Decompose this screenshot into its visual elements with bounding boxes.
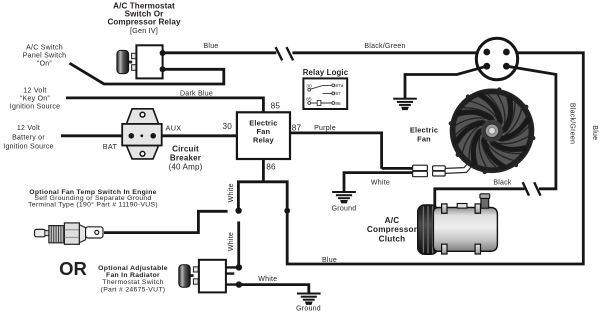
svg-text:Blue: Blue: [322, 257, 337, 264]
svg-text:12 Volt: 12 Volt: [17, 125, 40, 132]
label A/C Compressor Clutch: [367, 216, 418, 243]
engine temp switch neck: [45, 231, 50, 236]
radiator thermostat switch contact dots: [236, 264, 242, 288]
svg-text:Relay: Relay: [253, 136, 274, 145]
wire black/green from connector to compressor black wire: [506, 66, 556, 189]
svg-text:Ignition Source: Ignition Source: [10, 103, 60, 110]
4-pin round connector: [476, 38, 517, 79]
svg-text:85: 85: [271, 102, 281, 111]
circuit breaker terminal AUX: [150, 133, 156, 139]
svg-text:A/C Switch: A/C Switch: [26, 45, 63, 52]
label A/C Switch Panel Switch On: [23, 45, 66, 68]
svg-text:BAT: BAT: [103, 142, 118, 151]
svg-text:87: 87: [335, 91, 341, 97]
junction dot on blue branch: [284, 208, 290, 214]
svg-text:85: 85: [306, 97, 312, 103]
wire from breaker AUX to relay pin 30: [153, 134, 237, 137]
svg-text:Circuit: Circuit: [172, 145, 199, 154]
fan wire plug connector right half: [433, 166, 446, 176]
svg-text:Black/Green: Black/Green: [364, 43, 405, 50]
circuit breaker mounting bracket: [126, 109, 158, 159]
engine temp switch hex nut: [64, 223, 79, 244]
svg-text:AUX: AUX: [166, 124, 182, 133]
circuit breaker center rivet: [140, 134, 143, 137]
label 12 Volt Battery or Ignition Source: [3, 125, 53, 150]
svg-text:Relay Logic: Relay Logic: [303, 68, 349, 77]
wire white from engine temp switch with step: [104, 211, 228, 232]
wire from A/C panel switch to thermostat switch: [70, 63, 224, 84]
A/C thermostat switch capsule sensor: [117, 50, 132, 73]
label Electric Fan Relay: [249, 119, 277, 145]
svg-text:Ignition Source: Ignition Source: [3, 144, 53, 151]
fan lead wires: [445, 142, 489, 173]
svg-text:Panel Switch: Panel Switch: [23, 53, 66, 60]
circuit breaker body: [122, 124, 162, 146]
svg-text:Breaker: Breaker: [170, 153, 201, 162]
svg-text:87a: 87a: [335, 83, 343, 89]
wire dark blue from Key On source to relay pin 85: [66, 98, 263, 112]
svg-text:Black/Green: Black/Green: [569, 103, 576, 144]
svg-text:White: White: [228, 232, 235, 251]
A/C compressor body: [433, 204, 497, 252]
splice break in blue wire: [276, 47, 294, 60]
svg-text:“Key On”: “Key On”: [20, 95, 50, 102]
svg-text:A/C: A/C: [385, 216, 400, 225]
radiator thermostat switch stubs: [226, 267, 237, 284]
svg-text:Fan In Radiator: Fan In Radiator: [106, 272, 160, 279]
electric fan: [449, 87, 536, 174]
label A/C Thermostat Switch title: [107, 1, 181, 35]
A/C compressor clutch pulley: [418, 205, 439, 255]
ground fan white lead: [332, 191, 356, 203]
svg-text:White: White: [371, 180, 390, 187]
svg-text:30: 30: [306, 83, 312, 89]
A/C thermostat switch body: [136, 45, 162, 78]
svg-text:OR: OR: [59, 258, 87, 279]
wire white from radiator switch to ground: [239, 285, 309, 293]
label Circuit Breaker 40 Amp: [168, 145, 202, 172]
radiator thermostat switch body: [199, 260, 226, 293]
svg-text:87: 87: [292, 124, 302, 133]
svg-text:Black: Black: [493, 180, 512, 187]
ground connector blue lead: [393, 98, 417, 110]
wire from relay pin 86 splitting to switch branches: [238, 53, 583, 264]
engine temp switch sensor tip: [35, 229, 46, 236]
svg-text:Ground: Ground: [296, 305, 321, 312]
svg-text:(40 Amp): (40 Amp): [168, 163, 202, 172]
A/C thermostat switch terminals: [132, 53, 137, 70]
radiator thermostat switch capsule: [179, 265, 194, 288]
label 12 Volt Key On Ignition Source: [10, 87, 60, 110]
wire purple from relay pin 87 to fan connector: [290, 133, 413, 169]
svg-text:White: White: [258, 276, 277, 283]
svg-text:Battery or: Battery or: [12, 135, 45, 142]
svg-text:Purple: Purple: [314, 125, 336, 132]
electric fan relay box: [237, 112, 290, 159]
svg-text:86: 86: [335, 101, 341, 107]
wire white fan ground lead: [344, 173, 413, 192]
wire black to compressor clutch: [435, 189, 525, 208]
svg-text:Electric: Electric: [410, 126, 438, 135]
ground radiator switch: [297, 293, 321, 305]
A/C compressor mounting lugs: [442, 204, 481, 254]
junction dot optional switch node: [235, 207, 241, 213]
svg-text:Clutch: Clutch: [379, 234, 406, 243]
label Electric Fan: [410, 126, 438, 144]
svg-text:Terminal Type (190° Part # 111: Terminal Type (190° Part # 11190-VUS): [28, 201, 158, 209]
wire blue from connector to ground: [405, 66, 487, 98]
svg-text:[Gen IV]: [Gen IV]: [130, 26, 158, 35]
A/C thermostat switch contact dots: [160, 50, 166, 72]
wire from battery source to circuit breaker BAT: [61, 134, 131, 137]
wire white left branch down to junction: [237, 182, 240, 208]
engine temp switch threads: [49, 226, 65, 243]
circuit breaker terminal BAT: [129, 133, 135, 139]
radiator thermostat switch terminals: [193, 267, 198, 284]
svg-text:(Part # 24675-VUT): (Part # 24675-VUT): [101, 286, 166, 293]
svg-text:“On”: “On”: [37, 61, 52, 68]
svg-text:86: 86: [266, 162, 276, 171]
label Optional Fan Temp Switch note: [28, 189, 158, 209]
splice break in black wire: [523, 182, 541, 195]
svg-text:Blue: Blue: [591, 125, 598, 140]
svg-text:Optional Adjustable: Optional Adjustable: [98, 265, 168, 272]
svg-text:Ground: Ground: [332, 206, 357, 213]
engine temp switch spade terminal: [79, 225, 103, 243]
svg-text:White: White: [228, 183, 235, 202]
A/C compressor top fitting: [480, 194, 490, 208]
fan wire plug connector left half: [413, 165, 428, 177]
svg-text:Thermostat Switch: Thermostat Switch: [102, 279, 163, 286]
label Optional Adjustable Fan note: [98, 265, 168, 293]
connector pin dots: [483, 49, 509, 70]
relay logic pin labels: [306, 83, 343, 107]
relay logic box: [303, 78, 347, 109]
svg-text:Blue: Blue: [203, 43, 218, 50]
svg-text:Compressor: Compressor: [367, 225, 418, 234]
wire black/green from splice to 4-pin connector: [292, 51, 476, 54]
wire blue from A/C thermostat switch to splice: [162, 51, 276, 54]
svg-text:Fan: Fan: [417, 134, 431, 143]
svg-text:30: 30: [222, 122, 232, 131]
wire white from junction to radiator thermostat switch: [237, 221, 240, 267]
svg-text:12 Volt: 12 Volt: [23, 87, 46, 94]
svg-text:Dark Blue: Dark Blue: [180, 91, 213, 98]
